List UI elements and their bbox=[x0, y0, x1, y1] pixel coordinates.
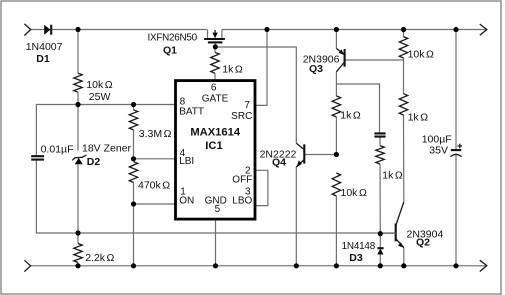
svg-text:10kΩ: 10kΩ bbox=[86, 79, 112, 91]
svg-text:1N4148: 1N4148 bbox=[342, 241, 376, 252]
svg-text:Q4: Q4 bbox=[272, 157, 286, 169]
svg-text:5: 5 bbox=[215, 204, 221, 215]
svg-text:D2: D2 bbox=[87, 156, 101, 168]
svg-text:10kΩ: 10kΩ bbox=[408, 49, 434, 61]
svg-text:25W: 25W bbox=[89, 91, 111, 103]
svg-text:IC1: IC1 bbox=[205, 140, 222, 152]
svg-text:18V Zener: 18V Zener bbox=[82, 143, 132, 155]
svg-text:2.2kΩ: 2.2kΩ bbox=[85, 252, 114, 264]
svg-text:35V: 35V bbox=[429, 145, 448, 157]
svg-text:LBO: LBO bbox=[232, 195, 252, 206]
svg-text:Q2: Q2 bbox=[416, 237, 430, 249]
svg-text:Q1: Q1 bbox=[163, 45, 177, 57]
svg-text:Q3: Q3 bbox=[309, 63, 323, 75]
svg-text:10kΩ: 10kΩ bbox=[341, 187, 367, 199]
svg-text:SRC: SRC bbox=[231, 111, 252, 122]
svg-text:6: 6 bbox=[211, 83, 217, 94]
svg-text:1kΩ: 1kΩ bbox=[340, 110, 361, 122]
svg-text:1kΩ: 1kΩ bbox=[408, 112, 429, 124]
svg-text:D3: D3 bbox=[349, 252, 363, 264]
svg-text:1kΩ: 1kΩ bbox=[222, 64, 243, 76]
svg-text:LBI: LBI bbox=[179, 156, 194, 167]
svg-text:ON: ON bbox=[179, 195, 194, 206]
svg-text:D1: D1 bbox=[36, 53, 50, 65]
svg-text:1kΩ: 1kΩ bbox=[382, 170, 403, 182]
svg-text:GATE: GATE bbox=[202, 94, 229, 105]
svg-text:470kΩ: 470kΩ bbox=[138, 180, 170, 192]
svg-text:7: 7 bbox=[244, 100, 250, 111]
svg-text:BATT: BATT bbox=[179, 106, 204, 117]
svg-text:OFF: OFF bbox=[232, 175, 252, 186]
svg-text:0.01µF: 0.01µF bbox=[41, 144, 74, 156]
svg-text:IXFN26N50: IXFN26N50 bbox=[148, 32, 198, 43]
svg-text:MAX1614: MAX1614 bbox=[190, 127, 241, 139]
svg-text:3.3MΩ: 3.3MΩ bbox=[139, 128, 172, 140]
svg-text:1N4007: 1N4007 bbox=[26, 41, 63, 53]
